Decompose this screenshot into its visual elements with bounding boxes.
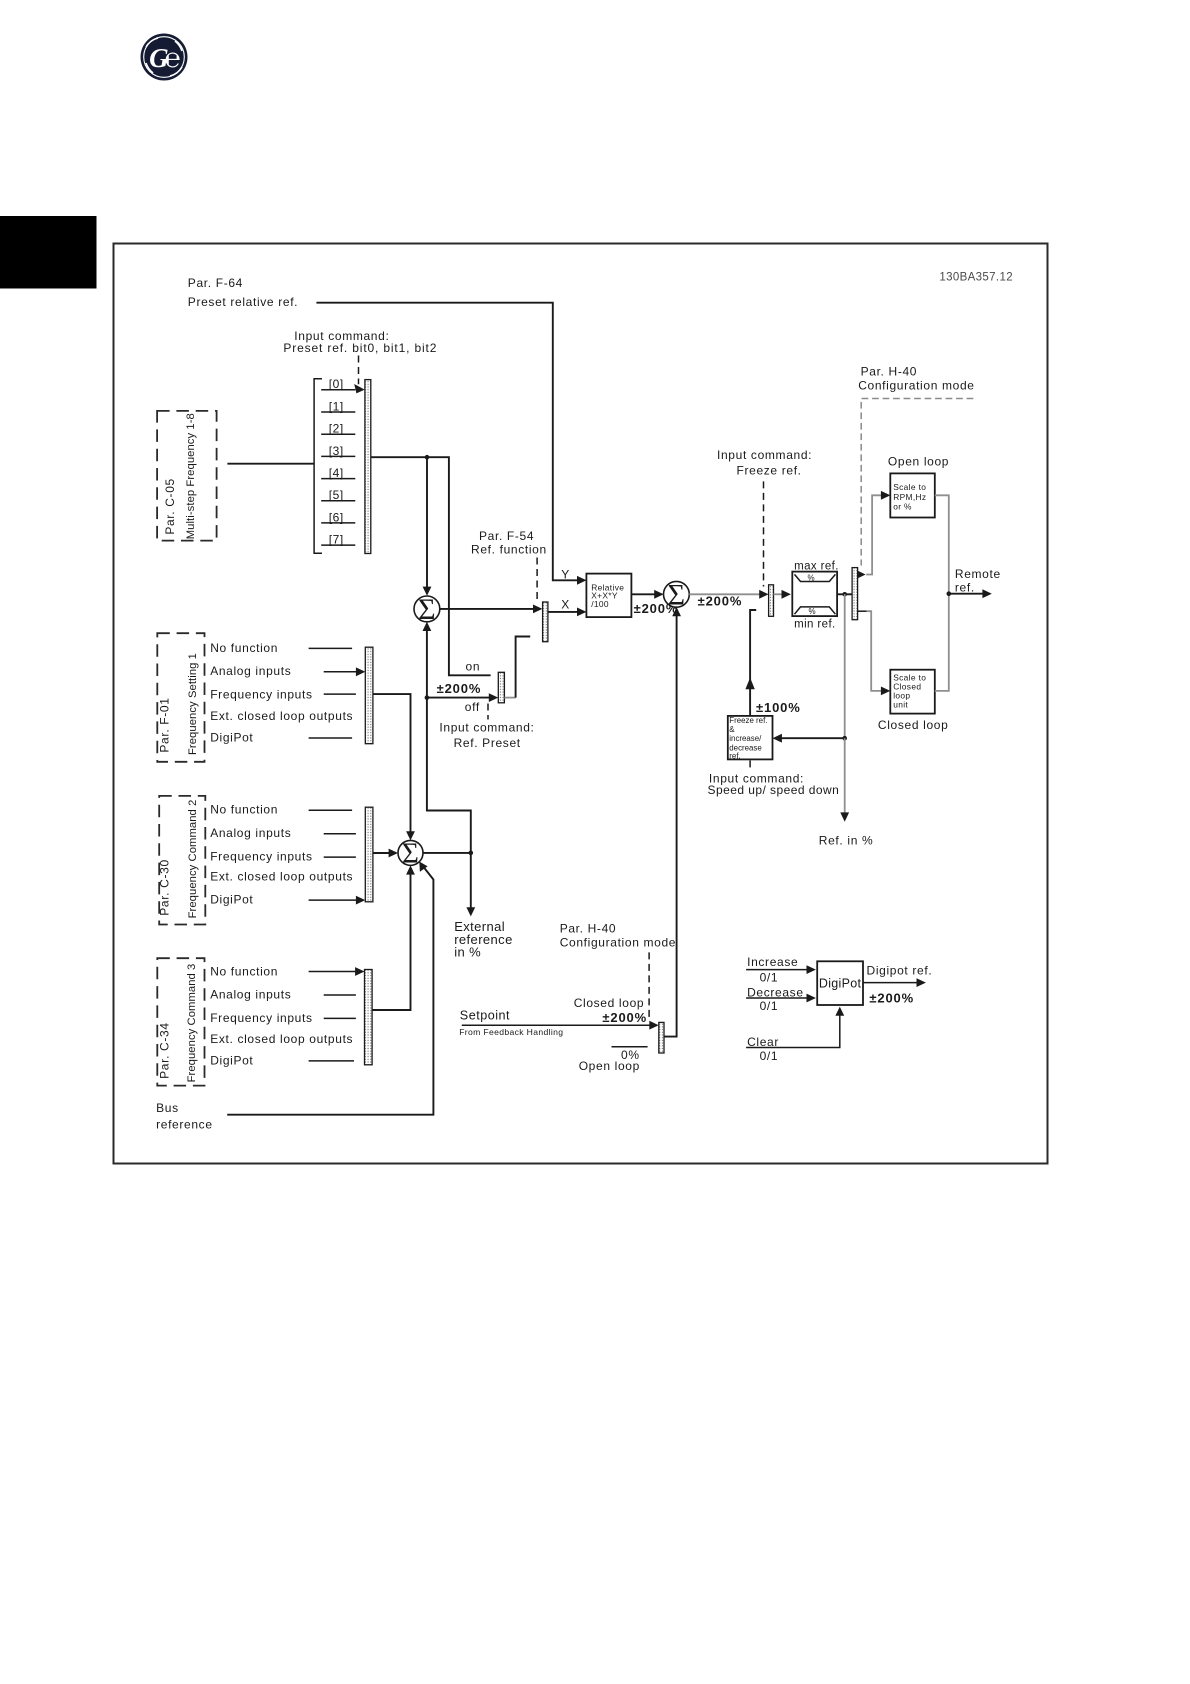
selector bar group 1: [365, 647, 373, 744]
svg-text:0/1: 0/1: [760, 971, 779, 985]
svg-text:or %: or %: [893, 502, 912, 512]
svg-text:Σ: Σ: [402, 838, 419, 870]
svg-text:unit: unit: [893, 700, 908, 710]
group 1 stub wires: [309, 647, 353, 649]
svg-text:ref.: ref.: [955, 581, 975, 595]
wire group1 out to sum2: [373, 694, 411, 832]
dashed group box Par. C-34: [157, 958, 204, 1085]
summation sum1: [414, 593, 440, 626]
scale to closed loop unit box: [890, 670, 935, 714]
junction: [425, 455, 430, 460]
junction after limiter: [842, 592, 847, 597]
selector bar group 2: [365, 807, 373, 902]
svg-text:Frequency inputs: Frequency inputs: [210, 1011, 312, 1025]
svg-text:Par. F-64: Par. F-64: [188, 276, 243, 290]
junction freeze feedback: [842, 736, 847, 741]
svg-text:Ref. Preset: Ref. Preset: [454, 736, 521, 750]
wire X into relative box: [548, 611, 578, 613]
svg-text:Frequency Command 3: Frequency Command 3: [186, 964, 198, 1083]
svg-text:on: on: [466, 659, 481, 673]
wire C-05 to multi-step list: [227, 463, 314, 465]
wire down to freeze box level: [844, 594, 846, 738]
junction external ref: [469, 851, 474, 856]
svg-text:/100: /100: [591, 599, 609, 609]
wire preset relative ref to Y input: [316, 303, 578, 581]
svg-text:G℮: G℮: [149, 43, 180, 73]
svg-text:No function: No function: [210, 964, 278, 978]
svg-text:DigiPot: DigiPot: [819, 977, 862, 991]
svg-text:Σ: Σ: [418, 593, 435, 626]
arrow out of switch upper: [858, 571, 866, 578]
wire digipot output: [863, 982, 918, 984]
svg-text:%: %: [807, 573, 814, 582]
wire limiter to output switch: [837, 593, 852, 595]
svg-text:±200%: ±200%: [869, 990, 914, 1005]
svg-text:±200%: ±200%: [602, 1010, 647, 1025]
svg-text:Open loop: Open loop: [888, 455, 949, 469]
junction remote ref: [947, 591, 952, 596]
selector bar group 3: [365, 970, 373, 1065]
svg-text:Configuration mode: Configuration mode: [858, 379, 974, 393]
svg-text:Analog inputs: Analog inputs: [210, 988, 291, 1002]
svg-text:Bus: Bus: [156, 1101, 179, 1115]
svg-text:Input command:: Input command:: [717, 448, 812, 462]
dashed group box Par. F-01: [157, 633, 204, 762]
dashed wire ref preset command: [487, 704, 489, 720]
svg-text:ref.: ref.: [729, 752, 740, 761]
svg-text:Frequency Command 2: Frequency Command 2: [187, 800, 199, 919]
wire increase: [746, 969, 808, 971]
GE logo: [141, 34, 188, 81]
svg-text:max ref.: max ref.: [794, 561, 839, 573]
svg-text:Preset ref. bit0, bit1, bit2: Preset ref. bit0, bit1, bit2: [283, 341, 437, 355]
svg-text:off: off: [465, 700, 480, 714]
wire down to external reference label: [470, 853, 472, 908]
group 1 source list: [210, 641, 353, 745]
wire sum2 up to sum1: [427, 698, 471, 853]
summation sum2: [398, 838, 423, 870]
svg-text:%: %: [808, 607, 815, 616]
wire relative box to main sum: [631, 593, 655, 595]
svg-text:Input command:: Input command:: [439, 720, 534, 734]
svg-text:0/1: 0/1: [760, 1049, 779, 1063]
svg-text:min ref.: min ref.: [794, 618, 836, 630]
svg-text:Par. H-40: Par. H-40: [861, 365, 918, 379]
svg-text:Configuration mode: Configuration mode: [560, 935, 676, 949]
wire freeze box up: [750, 610, 756, 716]
svg-text:Frequency Setting 1: Frequency Setting 1: [187, 653, 199, 755]
arrow into main sum bottom: [672, 607, 681, 616]
dashed wire H-40 to output switch: [861, 399, 973, 566]
black sidebar block: [0, 216, 97, 289]
svg-text:&: &: [729, 725, 735, 734]
wire up into sum1 bottom: [426, 625, 428, 697]
svg-text:Preset relative ref.: Preset relative ref.: [188, 295, 298, 309]
wire to scale closed loop box: [867, 611, 883, 691]
svg-text:Par. C-34: Par. C-34: [157, 1022, 171, 1079]
wire bus reference: [227, 865, 433, 1115]
svg-text:Frequency inputs: Frequency inputs: [210, 850, 312, 864]
switch bar setpoint: [659, 1022, 664, 1053]
svg-text:Analog inputs: Analog inputs: [210, 664, 291, 678]
svg-text:in %: in %: [454, 945, 481, 960]
wire joining scale outputs: [935, 495, 949, 691]
svg-text:Ref. in %: Ref. in %: [819, 834, 874, 848]
svg-text:Par. H-40: Par. H-40: [560, 921, 617, 935]
svg-text:Setpoint: Setpoint: [460, 1009, 510, 1023]
multi-step bracket: [314, 379, 322, 554]
wire 0% open loop contact: [612, 1046, 648, 1048]
svg-text:Analog inputs: Analog inputs: [210, 826, 291, 840]
svg-text:DigiPot: DigiPot: [210, 1053, 253, 1067]
switch bar output mode: [852, 568, 858, 620]
arrow into ref function switch: [533, 605, 542, 614]
group 2 stub wires: [309, 809, 353, 811]
group 3 stub wires: [309, 971, 356, 973]
freeze ref block: [728, 716, 773, 761]
svg-text:Closed loop: Closed loop: [878, 718, 949, 732]
limiter box max-min: [792, 572, 837, 617]
dashed wire input command to selector: [358, 356, 360, 385]
selector bar multi-step: [365, 380, 371, 554]
svg-text:No function: No function: [210, 641, 278, 655]
wire selector output: [371, 457, 491, 675]
switch bar ref function: [543, 602, 548, 642]
wire to scale RPM box: [866, 495, 883, 574]
arrow bus into sum2: [419, 862, 427, 872]
dashed wire freeze command: [763, 481, 765, 586]
dashed group box Par. C-05: [157, 411, 217, 541]
svg-text:0/1: 0/1: [760, 999, 779, 1013]
dashed group box Par. C-30: [159, 796, 205, 925]
wire clear: [746, 1013, 840, 1047]
dashed wire H-40 setpoint switch: [648, 952, 650, 1021]
svg-text:Freeze ref.: Freeze ref.: [737, 464, 802, 478]
svg-text:±100%: ±100%: [756, 700, 801, 715]
wire lower contact: [858, 610, 867, 612]
svg-text:RPM,Hz: RPM,Hz: [893, 492, 926, 502]
svg-text:Speed up/ speed down: Speed up/ speed down: [708, 783, 840, 797]
arrow into sum 1 top: [423, 587, 432, 596]
junction ref preset: [425, 695, 430, 700]
wire down to sum 1: [426, 457, 428, 587]
wire down to ref in %: [844, 738, 846, 813]
switch bar ref preset: [498, 672, 504, 703]
svg-text:Ext. closed loop outputs: Ext. closed loop outputs: [210, 1032, 353, 1046]
wire group3 out to sum2: [372, 874, 410, 1010]
wire main sum to freeze switch: [689, 593, 761, 595]
svg-text:Ext. closed loop outputs: Ext. closed loop outputs: [210, 709, 353, 723]
svg-text:DigiPot: DigiPot: [210, 730, 253, 744]
digipot block: [817, 961, 863, 1005]
svg-text:Increase: Increase: [747, 955, 798, 969]
wire remote ref out: [949, 593, 984, 595]
preset list [0]-[7]: [321, 377, 355, 546]
arrow into Y input: [577, 576, 586, 585]
svg-text:Closed loop: Closed loop: [574, 996, 645, 1010]
summation main sum: [664, 578, 690, 611]
svg-text:±200%: ±200%: [698, 593, 743, 608]
svg-text:Digipot ref.: Digipot ref.: [867, 964, 933, 978]
svg-text:DigiPot: DigiPot: [210, 892, 253, 906]
svg-text:Par. C-05: Par. C-05: [163, 478, 177, 535]
svg-text:Multi-step Frequency 1-8: Multi-step Frequency 1-8: [185, 413, 197, 539]
arrow up on freeze wire: [745, 678, 754, 690]
svg-text:Par. F-01: Par. F-01: [157, 697, 171, 752]
wire to off contact: [427, 697, 490, 699]
svg-text:Freeze ref.: Freeze ref.: [729, 716, 767, 725]
svg-text:Open loop: Open loop: [579, 1059, 640, 1073]
arrow into selector top: [354, 384, 365, 393]
group 3 source list: [210, 964, 353, 1067]
svg-text:Scale to: Scale to: [893, 482, 926, 492]
wire sum2 output: [423, 852, 471, 854]
dashed wire F-54 to switch: [536, 558, 538, 600]
dashed wire speed command: [749, 760, 751, 770]
svg-text:±200%: ±200%: [437, 681, 482, 696]
wire setpoint switch to main sum: [664, 612, 677, 1037]
svg-text:From Feedback Handling: From Feedback Handling: [459, 1027, 563, 1037]
scale to RPM box: [890, 473, 935, 517]
svg-text:Σ: Σ: [668, 578, 685, 611]
svg-text:Ext. closed loop outputs: Ext. closed loop outputs: [210, 870, 353, 884]
wire group2 out to sum2: [373, 852, 390, 854]
group 2 source list: [210, 803, 353, 907]
svg-text:Par. C-30: Par. C-30: [157, 859, 171, 916]
svg-text:Ref. function: Ref. function: [471, 543, 547, 557]
svg-text:No function: No function: [210, 803, 278, 817]
wire decrease: [746, 997, 808, 999]
svg-text:Remote: Remote: [955, 567, 1001, 581]
svg-text:reference: reference: [156, 1118, 213, 1132]
wire setpoint to switch: [462, 1024, 651, 1026]
svg-text:increase/: increase/: [729, 734, 762, 743]
wire to freeze box: [780, 737, 844, 739]
svg-text:Frequency inputs: Frequency inputs: [210, 688, 312, 702]
wire sum1 output to ref function switch: [440, 608, 535, 610]
wire freeze switch to limiter: [774, 593, 784, 595]
wire ref preset out: [504, 697, 515, 699]
svg-text:Y: Y: [561, 567, 570, 581]
switch bar freeze ref: [769, 585, 774, 617]
relative scaling box U1: [586, 574, 631, 618]
svg-text:130BA357.12: 130BA357.12: [939, 272, 1013, 284]
diagram frame: [114, 244, 1048, 1164]
svg-text:Par. F-54: Par. F-54: [479, 529, 534, 543]
svg-text:X: X: [561, 597, 570, 611]
